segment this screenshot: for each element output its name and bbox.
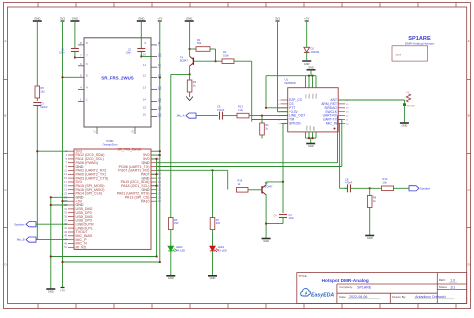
svg-text:GND: GND — [304, 63, 310, 66]
wire MCU GND pin stub 2 — [151, 173, 157, 175]
wire C1 to pin 7 — [75, 57, 84, 59]
ground bottom left — [46, 289, 55, 293]
ground flag GND top-left 2 — [70, 17, 79, 21]
svg-text:14: 14 — [143, 98, 147, 102]
wire ground flag to rail — [310, 70, 312, 76]
svg-text:16: 16 — [143, 113, 147, 117]
frame column ticks bottom — [38, 304, 456, 309]
ground flag below D2 — [302, 61, 311, 66]
svg-text:100k: 100k — [223, 53, 229, 57]
wire GND rail right of MCU — [156, 159, 158, 257]
svg-text:470nF: 470nF — [217, 108, 225, 112]
junction GND bottom — [50, 255, 52, 257]
ground below DMR818 — [306, 144, 315, 148]
svg-text:A: A — [468, 39, 470, 43]
svg-text:2.2k: 2.2k — [238, 108, 244, 112]
title block values — [349, 278, 455, 299]
wire PTT pin — [266, 107, 288, 109]
svg-text:B: B — [468, 114, 470, 118]
wire T3 emitter to ground — [265, 194, 267, 238]
junction rail 2 — [311, 75, 313, 77]
wire Mic_A to C6 — [196, 115, 218, 117]
wire R4 bottom stub — [261, 135, 263, 139]
wire R5 to C3 — [36, 98, 38, 101]
resistor R9 — [367, 196, 376, 208]
wire GND to MCU pin GND2 — [51, 204, 68, 206]
svg-text:xxxx: xxxx — [396, 52, 402, 56]
capacitor C1 — [59, 48, 79, 54]
svg-text:R1: R1 — [197, 38, 201, 42]
port Speaker — [14, 222, 36, 227]
svg-text:REV:: REV: — [439, 278, 446, 282]
svg-text:Sheet:: Sheet: — [439, 285, 448, 289]
svg-text:330: 330 — [174, 221, 179, 225]
wire PA07 corner down — [227, 170, 229, 189]
ground flag GND above T4 branch — [185, 17, 194, 21]
svg-text:PA-LED: PA-LED — [176, 248, 185, 252]
wire VCC feed down to PTT — [265, 76, 267, 108]
svg-text:VCC: VCC — [305, 93, 307, 98]
IC U1 left pins — [278, 98, 305, 125]
junction PA07 to LED1 — [211, 169, 213, 171]
wire C4 to emitter node — [266, 223, 283, 225]
IC PCB1 OrangeZero designator — [102, 139, 118, 147]
svg-text:GND: GND — [210, 276, 216, 280]
junction emitter node — [189, 73, 191, 75]
IC U1 bottom pin labels — [306, 125, 315, 130]
resistor R3 — [187, 80, 196, 92]
wire node to R1 — [190, 48, 196, 50]
wire GND to C2 — [140, 22, 142, 48]
svg-text:TITLE:: TITLE: — [299, 274, 308, 278]
wire into C8 — [345, 187, 348, 189]
wire collector horizontal — [266, 181, 283, 183]
IC U1 designator — [285, 78, 296, 85]
svg-text:GND: GND — [138, 17, 144, 21]
wire MIC_IN down to C8 — [339, 123, 341, 188]
svg-text:R9: R9 — [373, 196, 377, 200]
wire T/R pin wire — [252, 119, 288, 121]
wire UART-TX stub — [338, 119, 342, 121]
wire R1 to corner — [210, 48, 216, 50]
svg-text:LED2: LED2 — [176, 245, 183, 249]
power flag 3V3 — [60, 17, 65, 21]
wire emitter node to R3 — [189, 74, 191, 80]
junction MCU GND stub 3 — [156, 185, 158, 187]
capacitor C3 — [33, 101, 48, 108]
wire R2 right — [234, 60, 252, 62]
svg-text:B: B — [4, 114, 6, 118]
svg-text:GND: GND — [310, 125, 312, 130]
wire R2 corner down to T/R pin — [251, 61, 253, 121]
wire rail to MCU +5V pin — [63, 200, 69, 202]
IC PCB1 left pins — [64, 149, 108, 249]
svg-text:R3: R3 — [193, 80, 197, 84]
wire SPKON down to T3 node — [282, 123, 284, 181]
svg-text:Speaker: Speaker — [14, 222, 24, 226]
svg-text:GND: GND — [367, 236, 373, 240]
svg-text:GND: GND — [34, 17, 40, 21]
wire PA-LED column down — [170, 74, 172, 217]
wire DMR818 bottom rail — [306, 137, 317, 139]
svg-text:12: 12 — [143, 74, 147, 78]
svg-text:OrangeZero: OrangeZero — [102, 142, 118, 146]
wire GND bottom horizontal — [51, 256, 157, 258]
power flag +7V bottom — [60, 288, 65, 293]
wire +7V to D2 — [306, 22, 308, 47]
junction +7V pin12 — [159, 77, 161, 79]
junction 3V3 pin5 — [61, 76, 63, 78]
frame zone letters — [4, 39, 470, 266]
svg-text:W1 DNI: W1 DNI — [407, 105, 415, 107]
svg-text:DMR818: DMR818 — [285, 81, 296, 85]
junction dot inside U1 — [334, 128, 336, 130]
junction base R2 node — [214, 60, 216, 62]
svg-text:3V3: 3V3 — [275, 17, 280, 21]
wire MCU GND pin stub 3 — [151, 185, 157, 187]
wire DMR818 top pin x=312.5 — [312, 76, 314, 88]
junction mic node — [261, 115, 263, 117]
svg-text:Mic_A: Mic_A — [177, 114, 185, 118]
wire UART-RX stub — [337, 115, 340, 117]
wire DMR818 top pin x=316 — [315, 76, 317, 88]
wire R6 to LED2 — [170, 230, 172, 247]
junction speaker node — [369, 187, 371, 189]
svg-text:R10: R10 — [383, 177, 388, 181]
wire C3 down left rail — [36, 106, 38, 240]
wire R10 to speaker port — [394, 187, 410, 189]
wire C6 to R13 — [223, 115, 238, 117]
resistor R13 — [237, 104, 249, 118]
svg-text:Speaker: Speaker — [420, 186, 430, 190]
wire node down to R9 — [369, 188, 371, 195]
junction rail 1 — [308, 75, 310, 77]
svg-text:15: 15 — [143, 106, 147, 110]
junction rail MCU pin1 — [36, 150, 38, 152]
wire bottom rail to ground — [310, 138, 312, 143]
svg-text:+7V: +7V — [60, 289, 65, 293]
svg-text:Arkadiusz Orłowski: Arkadiusz Orłowski — [415, 295, 446, 299]
ground arrow below R3 — [186, 97, 193, 101]
note box xxxx — [392, 46, 428, 61]
ground flag GND above C2 — [137, 17, 146, 21]
wire C4 bottom — [282, 218, 284, 224]
svg-text:Drawn By:: Drawn By: — [392, 295, 406, 299]
wire +7V to pin 12 — [159, 22, 161, 78]
svg-text:GND: GND — [402, 123, 408, 127]
wire stub — [36, 256, 38, 258]
port Mic_A — [177, 113, 196, 118]
junction R1 collector node — [189, 48, 191, 50]
resistor R6 — [169, 218, 179, 230]
wire PA07 net — [157, 169, 228, 171]
wire VCC/GND top rail — [266, 75, 316, 77]
antenna feed pad — [403, 103, 406, 106]
svg-text:R4: R4 — [265, 123, 269, 127]
resistor R1 — [196, 38, 210, 52]
svg-text:GND: GND — [309, 93, 311, 98]
port Speaker — [409, 186, 430, 191]
junction 5V0 rail — [159, 154, 161, 156]
svg-text:R2: R2 — [223, 50, 227, 54]
svg-text:Hotspot DMR-Analog: Hotspot DMR-Analog — [322, 278, 369, 283]
svg-text:GND: GND — [168, 276, 174, 280]
capacitor C6 — [217, 105, 225, 120]
transistor T4 — [180, 55, 194, 66]
wire MCU 5V0 stub 2 — [151, 150, 160, 152]
resistor R4 — [260, 123, 269, 135]
power flag +7V top — [157, 17, 162, 21]
wire GND to C1 — [74, 22, 76, 48]
svg-text:DMR-Analog Hotspot: DMR-Analog Hotspot — [405, 42, 434, 46]
resistor R14 — [237, 179, 249, 193]
junction PTT — [265, 107, 267, 109]
ground flag above DMR818 — [307, 67, 316, 70]
ground LED2 — [166, 276, 175, 280]
IC U1 DMR818 body — [288, 88, 339, 132]
svg-text:R6: R6 — [174, 218, 178, 222]
svg-text:GND: GND — [186, 17, 192, 21]
svg-text:LED1: LED1 — [218, 245, 225, 249]
junction +7V bottom — [61, 261, 63, 263]
svg-text:1/1: 1/1 — [450, 285, 455, 289]
wire MCU 5V0 stub — [151, 154, 160, 156]
junction rail MCU +5V — [61, 200, 63, 202]
wire R13 to LINE_OUT pin — [249, 115, 288, 117]
wire base to node — [193, 60, 215, 62]
svg-text:100n: 100n — [59, 52, 65, 55]
svg-text:GND: GND — [263, 239, 269, 243]
wire emitter node left — [171, 73, 190, 75]
IC U1 top pin labels — [305, 93, 318, 98]
svg-text:Date:: Date: — [339, 295, 346, 299]
capacitor C2 — [126, 48, 146, 54]
svg-text:TX-LED: TX-LED — [218, 248, 227, 252]
junction 5V0 rail 2 — [159, 150, 161, 152]
svg-text:GND: GND — [72, 17, 78, 21]
IC PCB1 OrangeZero body — [74, 149, 151, 249]
wire 3V3 stub into pin — [278, 111, 288, 113]
wire UART-RX down to net — [337, 116, 339, 163]
svg-text:SR_FRS_2WUS: SR_FRS_2WUS — [101, 76, 134, 81]
wire GND to MCU pin GND — [51, 196, 68, 198]
wire Speaker port to LINEOUTR — [36, 223, 68, 225]
wire +7V rail down — [159, 78, 161, 262]
svg-text:R14: R14 — [238, 179, 243, 183]
wire LED2 to ground — [170, 251, 172, 276]
svg-text:BC847: BC847 — [180, 59, 188, 63]
IC U2 SR_FRS_2WUS — [84, 38, 151, 127]
svg-text:SR_FRS_2WUS: SR_FRS_2WUS — [117, 148, 141, 152]
svg-text:+7V: +7V — [304, 17, 309, 21]
svg-text:R5: R5 — [41, 86, 45, 90]
svg-text:13: 13 — [143, 86, 147, 90]
text SP1ARE heading — [405, 36, 434, 45]
title block outline — [297, 273, 467, 304]
svg-text:2k2: 2k2 — [41, 90, 46, 94]
wire DMR818 top pin x=305.5 — [305, 76, 307, 88]
wire LED1 to ground — [212, 251, 214, 276]
svg-text:R13: R13 — [238, 104, 243, 108]
wire R9 to ground — [369, 208, 371, 236]
wire MIC_IN stub — [338, 122, 339, 124]
antenna W1 coil — [406, 94, 410, 102]
svg-text:330: 330 — [216, 221, 221, 225]
svg-text:470nF: 470nF — [345, 181, 353, 185]
ground flag GND top-left 1 — [33, 17, 42, 21]
svg-text:2022-06-06: 2022-06-06 — [349, 295, 367, 299]
IC U2 bottom pins — [94, 127, 135, 134]
junction C2 pin — [140, 55, 142, 57]
resistor R10 — [382, 177, 394, 191]
junction SPKON T3 C4 — [282, 181, 284, 183]
svg-text:IR_RX: IR_RX — [76, 246, 87, 250]
EasyEDA logo — [301, 289, 335, 299]
diode D2 — [304, 47, 320, 54]
transistor T3 — [262, 181, 273, 194]
wire UART-TX down to net — [341, 120, 343, 167]
junction +7V bottom right — [159, 261, 161, 263]
IC U1 right pins — [321, 98, 349, 125]
junction bottom rail 1 — [308, 137, 310, 139]
wire UART1_RX long net — [157, 166, 342, 168]
junction GND rail MCU 2 — [50, 204, 52, 206]
svg-text:SP1ARE: SP1ARE — [357, 285, 372, 289]
svg-text:EasyEDA: EasyEDA — [311, 292, 334, 298]
svg-text:GND: GND — [308, 144, 314, 148]
ground LED1 — [208, 276, 217, 280]
svg-text:Company:: Company: — [339, 285, 353, 289]
svg-text:GND: GND — [48, 289, 54, 293]
wire corner down to base node — [215, 49, 217, 61]
svg-text:100nF: 100nF — [40, 105, 48, 109]
svg-text:A: A — [4, 39, 6, 43]
frame row ticks left and right — [4, 80, 471, 228]
wire antenna to ground — [403, 100, 405, 123]
capacitor C4 — [273, 214, 294, 220]
wire R3 to ground arrow — [189, 92, 191, 97]
svg-text:PA10: PA10 — [141, 199, 150, 203]
resistor R7 — [210, 218, 220, 230]
wire C8 to R10 — [351, 187, 382, 189]
wire GND rail to bottom flag — [50, 197, 52, 289]
wire R14 to T3 base — [248, 189, 262, 191]
svg-text:10nF: 10nF — [289, 217, 295, 220]
ground R9 — [365, 236, 374, 240]
wire GND rail left upper — [36, 22, 38, 86]
ground antenna — [400, 123, 409, 127]
resistor R5 — [35, 86, 45, 98]
wire C2 to pin 10 — [140, 52, 142, 57]
wire node down to R4 — [261, 116, 263, 123]
wire Mic_B port to MIC_P — [36, 239, 68, 241]
svg-text:SPKON: SPKON — [289, 122, 301, 126]
wire UART1_TX long net — [157, 162, 338, 164]
svg-text:MIC_IN: MIC_IN — [326, 122, 338, 126]
junction bottom rail 2 — [311, 137, 313, 139]
wire +7V bottom horizontal — [63, 261, 160, 263]
wire C2 to pin 10 stub — [141, 56, 151, 58]
junction MCU GND stub — [156, 158, 158, 160]
wire 3V3 to +3.3V pin — [277, 22, 279, 112]
wire down to C4 — [282, 182, 284, 213]
wire GND flag down to R1 node — [189, 22, 191, 49]
wire MCU GND pin stub — [151, 158, 157, 160]
svg-text:100n: 100n — [126, 52, 132, 55]
junction C1 pin — [74, 56, 76, 58]
svg-text:GND: GND — [316, 93, 318, 98]
svg-text:3V3: 3V3 — [60, 17, 65, 21]
wire PA07 to R7 — [212, 170, 214, 217]
LED LED1 — [210, 245, 227, 252]
wire R7 to LED1 — [212, 230, 214, 247]
title block field labels — [299, 274, 448, 299]
resistor R2 — [222, 50, 234, 64]
wire DMR818 bottom pin x=316 — [315, 132, 317, 138]
svg-text:50k: 50k — [197, 41, 202, 45]
wire SPKON stub — [283, 122, 288, 124]
svg-text:ADC: ADC — [312, 125, 315, 130]
IC PCB1 right pins — [117, 153, 162, 203]
wire emitter of T4 — [189, 66, 191, 74]
title block fill-in lines — [348, 282, 457, 299]
wire DMR818 bottom pin x=309 — [308, 132, 310, 138]
IC U2 right pins — [143, 41, 162, 117]
frame column ticks top — [38, 3, 456, 8]
port Mic_B — [17, 237, 36, 242]
wire rail to MCU pin1 — [37, 150, 68, 152]
wire ANT to antenna — [338, 99, 404, 101]
wire 3V3/+7V rail left — [62, 22, 64, 288]
svg-text:1.0: 1.0 — [450, 278, 455, 282]
wire D2 to ground — [306, 52, 308, 60]
wire node to R2 — [216, 60, 223, 62]
wire DMR818 bottom pin x=312.5 — [312, 132, 314, 138]
power flag +7V above D2 — [304, 17, 309, 21]
svg-text:R7: R7 — [216, 218, 220, 222]
capacitor C8 — [345, 177, 353, 192]
wire to C8 left plate — [340, 187, 348, 189]
wire C1 to pin row — [74, 52, 76, 58]
svg-text:+7V: +7V — [157, 17, 162, 21]
junction GND rail MCU — [50, 196, 52, 198]
svg-text:10k: 10k — [383, 181, 388, 185]
wire DMR818 top pin x=309 — [308, 76, 310, 88]
power flag 3V3 above DMR818 — [275, 17, 280, 21]
svg-text:11: 11 — [143, 63, 146, 67]
wire DMR818 bottom pin x=305.5 — [305, 132, 307, 138]
svg-text:10: 10 — [143, 53, 147, 57]
svg-text:C3: C3 — [40, 101, 44, 105]
svg-text:GND: GND — [306, 125, 308, 130]
svg-text:GND: GND — [312, 93, 314, 98]
svg-text:Mic_B: Mic_B — [17, 238, 25, 242]
IC U2 left pins — [78, 41, 88, 102]
wire 3V3 rail to pin 5 — [63, 76, 79, 78]
svg-text:1N4001: 1N4001 — [311, 50, 321, 54]
junction GND bottom right — [156, 255, 158, 257]
LED LED2 — [168, 245, 185, 252]
ground T3 — [262, 239, 271, 243]
wire collector of T4 — [189, 49, 191, 56]
wire T3 collector up — [265, 182, 267, 185]
junction emitter C4 — [265, 223, 267, 225]
junction MCU GND stub 2 — [156, 173, 158, 175]
